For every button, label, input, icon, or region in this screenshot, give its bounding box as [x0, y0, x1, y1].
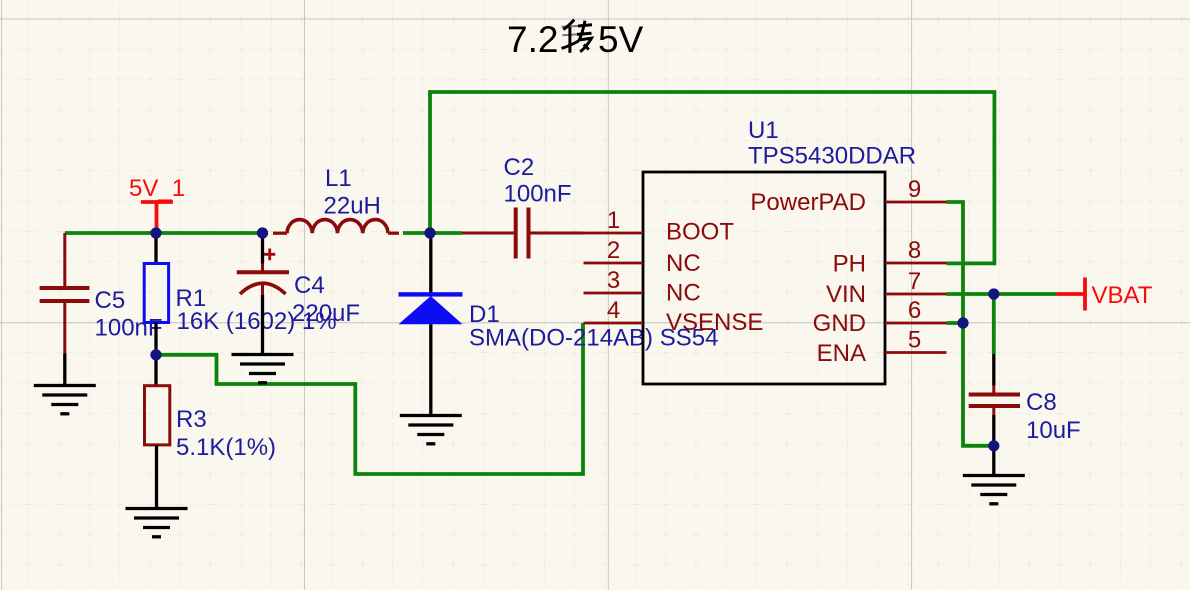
title 7.2转5V — [507, 19, 644, 60]
svg-text:U1: U1 — [748, 117, 779, 144]
svg-text:220uF: 220uF — [292, 300, 360, 327]
svg-text:VBAT: VBAT — [1092, 282, 1153, 309]
svg-text:C8: C8 — [1026, 389, 1057, 416]
ground under C8 — [963, 446, 1025, 504]
ground under R3 — [126, 509, 188, 537]
junction at C8 bottom / ground bus — [988, 440, 999, 451]
wire: feedback from R1/R3 divider to VSENSE — [156, 323, 583, 474]
ground under C5 — [34, 354, 96, 414]
svg-text:C4: C4 — [294, 272, 325, 299]
junction at GND pin 6 — [957, 317, 968, 328]
resistor R3 — [145, 355, 277, 509]
wire: VIN branch down to C8 — [992, 294, 996, 354]
svg-text:PH: PH — [833, 251, 866, 278]
U1 pin 5 ENA — [817, 327, 947, 368]
U1 pin 6 GND — [813, 297, 947, 337]
svg-text:8: 8 — [908, 237, 921, 264]
junction at 5V rail / C4 — [257, 227, 268, 238]
svg-text:C5: C5 — [95, 287, 126, 314]
U1 pin 2 NC — [584, 237, 701, 277]
U1 pin 7 VIN — [826, 268, 947, 308]
svg-text:10uF: 10uF — [1026, 417, 1081, 444]
svg-text:ENA: ENA — [817, 340, 866, 367]
U1 pin 9 PowerPAD — [750, 176, 946, 216]
svg-text:22uH: 22uH — [324, 193, 381, 220]
svg-text:VIN: VIN — [826, 281, 866, 308]
svg-text:VSENSE: VSENSE — [666, 309, 763, 336]
svg-text:NC: NC — [666, 280, 701, 307]
svg-text:C2: C2 — [504, 154, 535, 181]
U1 pin 8 PH — [833, 237, 947, 278]
svg-text:9: 9 — [908, 176, 921, 203]
wire: PowerPAD pin 9 to ground bus — [947, 202, 994, 446]
svg-text:4: 4 — [607, 297, 620, 324]
wire: VIN to VBAT — [947, 292, 1057, 296]
svg-text:GND: GND — [813, 310, 866, 337]
ground under D1 — [400, 416, 462, 444]
svg-text:R3: R3 — [176, 406, 207, 433]
svg-text:5V_1: 5V_1 — [129, 175, 185, 202]
capacitor C2 — [462, 154, 584, 259]
svg-text:5V: 5V — [598, 19, 644, 60]
wire: switch node (L1 to D1/C2) — [403, 231, 462, 235]
svg-text:L1: L1 — [325, 165, 352, 192]
svg-text:5.1K(1%): 5.1K(1%) — [176, 434, 276, 461]
junction at switch node / D1 — [424, 227, 435, 238]
svg-text:7.2: 7.2 — [507, 19, 558, 60]
U1 pin 3 NC — [584, 267, 701, 307]
svg-text:TPS5430DDAR: TPS5430DDAR — [748, 143, 916, 170]
capacitor C5 — [40, 233, 163, 354]
inductor L1 — [273, 165, 399, 233]
capacitor C4 (polarized) — [237, 236, 360, 355]
U1 pin 1 BOOT — [584, 207, 735, 246]
power port VBAT — [1057, 278, 1153, 311]
capacitor C8 — [969, 354, 1081, 446]
svg-text:100nF: 100nF — [504, 181, 572, 208]
svg-text:1: 1 — [607, 207, 620, 234]
U1 pin 4 VSENSE — [584, 297, 764, 336]
wire: input 5V rail (C5 to L1) — [65, 231, 268, 235]
IC U1 TPS5430DDAR body — [643, 117, 916, 384]
svg-text:3: 3 — [607, 267, 620, 294]
svg-text:5: 5 — [908, 327, 921, 354]
diode D1 — [399, 233, 719, 416]
svg-text:7: 7 — [908, 268, 921, 295]
svg-text:PowerPAD: PowerPAD — [750, 189, 866, 216]
svg-text:6: 6 — [908, 297, 921, 324]
junction at VIN / C8 branch — [988, 288, 999, 299]
wire: GND pin 6 stub — [947, 321, 964, 325]
svg-text:BOOT: BOOT — [666, 219, 734, 246]
svg-text:100nF: 100nF — [95, 315, 163, 342]
ground under C4 — [232, 355, 294, 383]
junction at 5V rail / R1 — [150, 227, 161, 238]
svg-text:2: 2 — [607, 237, 620, 264]
power port 5V_1 — [129, 175, 185, 229]
junction at R1/R3 divider — [150, 349, 161, 360]
svg-text:NC: NC — [666, 250, 701, 277]
resistor R1 — [144, 238, 336, 355]
wire: top loop from switch node to PH pin — [430, 92, 994, 263]
